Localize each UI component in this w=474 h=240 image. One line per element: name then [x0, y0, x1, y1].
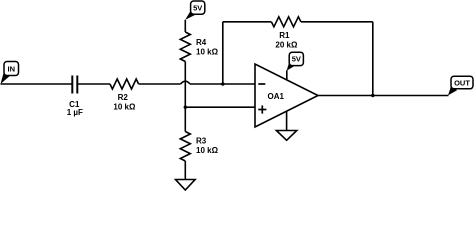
- svg-text:R4: R4: [196, 38, 207, 47]
- node OUT: [448, 76, 473, 95]
- wire IN to C1: [1, 83, 73, 85]
- svg-text:5V: 5V: [292, 55, 301, 64]
- junction dot divider node: [184, 106, 187, 109]
- wire node to op-amp plus input: [185, 106, 255, 108]
- wire output: [318, 95, 449, 97]
- capacitor C1: [67, 76, 83, 118]
- wire R2 to hop: [139, 83, 181, 85]
- power 5V tag at op-amp V+: [287, 52, 304, 80]
- wire feedback vertical left: [222, 22, 224, 84]
- ground below R3: [176, 180, 196, 191]
- wire op-amp V- to ground: [286, 111, 288, 131]
- junction dot at feedback tap: [221, 82, 224, 85]
- wire R1 to right corner: [301, 21, 373, 23]
- svg-text:1 µF: 1 µF: [67, 108, 83, 117]
- svg-text:10 kΩ: 10 kΩ: [196, 146, 219, 155]
- svg-text:OA1: OA1: [268, 92, 285, 101]
- wire node down to R3: [184, 107, 186, 131]
- svg-text:5V: 5V: [193, 3, 202, 12]
- svg-text:R2: R2: [118, 93, 129, 102]
- wire hop over R4/R3 column: [181, 81, 190, 84]
- resistor R1: [271, 17, 301, 50]
- svg-text:20 kΩ: 20 kΩ: [275, 41, 298, 50]
- resistor R4: [180, 32, 218, 62]
- junction dot at output: [371, 94, 374, 97]
- wire C1 to R2: [77, 83, 110, 85]
- svg-text:10 kΩ: 10 kΩ: [196, 47, 219, 56]
- svg-text:IN: IN: [8, 64, 16, 73]
- svg-text:OUT: OUT: [454, 78, 470, 87]
- node IN: [1, 62, 19, 85]
- svg-text:10 kΩ: 10 kΩ: [113, 103, 136, 112]
- wire top to R1: [223, 21, 272, 23]
- svg-text:R1: R1: [279, 31, 290, 40]
- resistor R2: [110, 79, 139, 112]
- wire R3 to ground: [184, 161, 186, 180]
- svg-text:R3: R3: [196, 136, 207, 145]
- wire hop to op-amp minus input: [190, 83, 255, 85]
- resistor R3: [180, 132, 218, 162]
- op-amp OA1: [255, 64, 318, 127]
- wire 5V to R4: [184, 20, 186, 32]
- wire feedback vertical right: [372, 22, 374, 96]
- wire R4 through crossing down to node: [184, 62, 186, 108]
- power 5V tag above R4: [185, 1, 205, 20]
- ground below op-amp: [276, 131, 296, 141]
